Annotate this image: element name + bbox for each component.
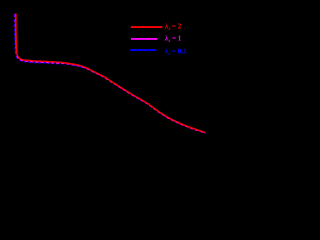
curve lambda_s=1 (magenta dashed) — [15, 14, 205, 133]
legend line lambda_s=2 (red) — [131, 26, 163, 28]
svg-text:λs=0.1: λs=0.1 — [164, 47, 187, 57]
legend line lambda_s=0.1 (blue) — [130, 49, 156, 51]
svg-text:λs=2: λs=2 — [164, 22, 182, 32]
curve lambda_s=0.1 (blue dashed) — [15, 14, 206, 133]
svg-text:λs=1: λs=1 — [164, 34, 182, 44]
red spike emphasis (lambda_s=2 curve left segment) — [15, 14, 18, 52]
curve lambda_s=2 (red solid) — [16, 14, 206, 133]
legend line lambda_s=1 (magenta) — [131, 38, 157, 40]
